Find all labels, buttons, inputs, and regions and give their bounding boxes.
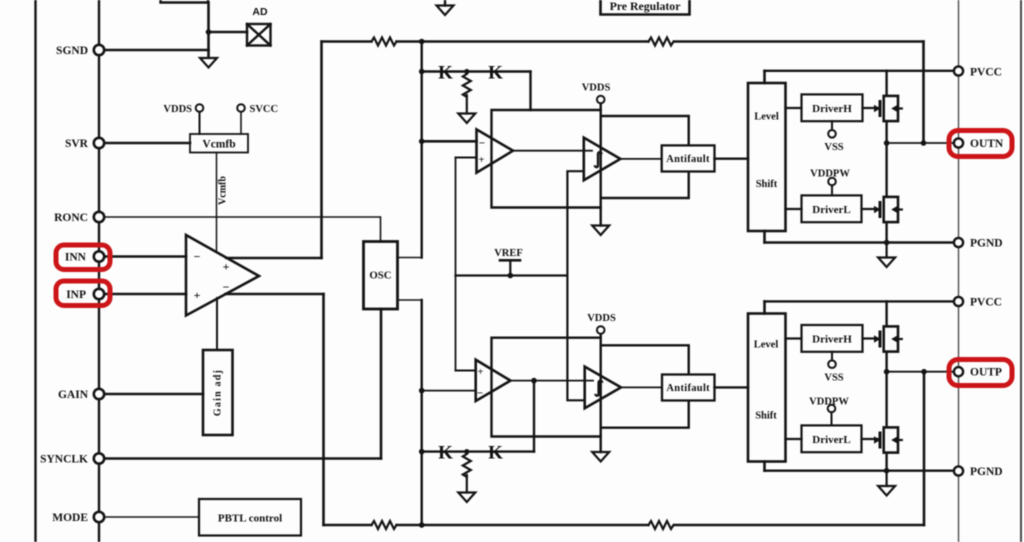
transistor Q3 high-side lower [874,326,902,351]
op-amp output plus wire [227,257,322,260]
integrator loop upper [601,116,689,198]
PGND rail lower [765,470,954,472]
svg-text:VREF: VREF [494,248,523,259]
DriverH box upper [802,94,863,121]
VREF junction dot [508,273,514,279]
Level Shift lower risers [763,301,766,470]
comparator loop lower [492,338,601,437]
K row lower wire [422,450,534,452]
svg-text:AD: AD [252,6,268,18]
K row upper junction dot [464,69,469,74]
ground under integrator upper [592,226,609,236]
red highlight INN [56,245,110,270]
OUTP junction dots [884,369,890,375]
VDDS rail lower vertical [600,334,602,452]
ground lower K [458,493,475,503]
Vcmfb output drop to op-amp [216,153,218,253]
VDDS rail upper vertical [600,103,602,225]
svg-text:VDDPW: VDDPW [809,397,849,408]
SVR wire [103,142,190,145]
svg-text:VSS: VSS [824,142,843,153]
SGND wire [103,49,209,52]
top feedback wire left segment [322,40,372,42]
svg-text:INP: INP [66,289,86,301]
DriverH upper gate wire [863,107,878,109]
pin SVR [94,138,104,148]
resistor to ground lower [463,454,471,477]
svg-text:Shift: Shift [755,411,777,422]
svg-text:Pre Regulator: Pre Regulator [610,0,681,13]
VDDPW stub upper [831,185,833,195]
top center ground [437,0,454,15]
svg-text:−: − [479,138,485,150]
svg-text:DriverH: DriverH [812,103,852,115]
K row upper wire [422,70,531,72]
INN wire [103,255,186,258]
node dot K row upper [419,69,425,75]
Q4 source stub [885,454,887,471]
bottom feedback riser to OUTP [923,372,926,525]
Level Shift box upper [748,83,786,231]
svg-text:+: + [223,260,230,274]
Gain adj box [203,350,233,435]
svg-text:INN: INN [65,252,87,264]
ground upper K [458,114,475,124]
svg-text:Vcmfb: Vcmfb [202,139,235,151]
comparator output upper [513,150,592,152]
AD crossed box [247,24,271,46]
Q1 drain stub [885,71,887,95]
ground stub below PGND upper [885,243,887,258]
VDDS circle upper [597,96,605,104]
integrator upper symbol [595,152,602,167]
comparator loop upper [492,110,601,208]
pin MODE [94,512,104,522]
pin INN [94,251,104,261]
pin PVCC upper [954,66,963,75]
right outer border [1020,0,1022,542]
wire below resistor upper [466,95,468,114]
node P summing vertical (lower) [421,300,423,525]
svg-text:PVCC: PVCC [970,297,1002,309]
svg-text:PGND: PGND [970,238,1003,250]
pin PVCC lower [954,297,963,306]
VDDPW stub lower [831,412,833,425]
svg-text:PBTL control: PBTL control [218,513,282,525]
Q3 source stub [885,353,887,372]
svg-text:−: − [477,388,483,400]
ground under integrator lower [592,452,609,462]
K row lower junction dot [464,449,469,454]
VDDPW circle lower [828,405,836,413]
SYNCLK wire [103,457,381,460]
integrator lower output [621,386,662,388]
DriverL box lower [802,425,862,452]
svg-text:Vcmfb: Vcmfb [218,176,229,205]
comparator output lower [511,380,594,382]
node dot comparator input lower [419,388,425,394]
red highlight OUTP [949,360,1012,386]
OSC output lower [398,299,422,301]
DriverL lower gate wire [862,438,878,440]
DriverL upper gate wire [862,208,878,210]
ground symbol upper channel [878,258,895,268]
ground symbol lower channel [878,486,895,496]
svg-text:OSC: OSC [369,270,391,282]
OUTN junction dots [884,140,890,146]
OSC bottom stub to SYNCLK wire [380,309,383,459]
MODE wire [103,516,199,518]
node dot bottom feedback [419,522,425,528]
DriverH lower gate wire [863,337,878,339]
SVCC pin circle [237,104,245,112]
pin bus vertical (left package boundary) [98,0,100,542]
svg-text:VSS: VSS [824,373,843,384]
PGND junction dot lower [884,468,890,474]
Q1 source stub [885,122,887,143]
svg-text:VDDS: VDDS [587,313,616,324]
svg-text:DriverL: DriverL [812,434,850,446]
DriverL lower input wire [786,438,802,440]
pin SYNCLK [94,453,104,463]
top feedback rail riser from op-amp [320,42,323,259]
comparator lower [476,360,511,401]
IC outline left border [34,0,36,542]
comparator input wire upper [422,140,477,143]
svg-text:K: K [488,443,503,464]
VSS stub lower [831,352,833,361]
integrator upper [584,138,621,181]
dot on comparator output lower [531,378,537,384]
wire from top box down to SGND node [207,3,210,58]
top cut-off box [161,0,209,3]
svg-text:Gain adj: Gain adj [213,369,224,416]
integrator lower symbol [595,381,602,396]
Antifault upper output [715,157,749,159]
PVCC rail lower [765,300,954,302]
top feedback drop to OUTN [922,42,925,144]
integrator upper output [620,158,661,160]
svg-text:Antifault: Antifault [666,383,710,394]
ground stub below PGND lower [885,471,887,486]
OSC box [364,242,398,310]
Antifault box lower [662,375,715,401]
svg-text:K: K [438,443,453,464]
svg-text:+: + [194,288,201,302]
svg-text:SVR: SVR [65,138,89,150]
svg-text:−: − [223,280,230,294]
svg-text:+: + [479,155,485,166]
resistor feedback bottom [649,521,674,529]
integrator lower [585,367,621,409]
Q4 drain stub [885,372,887,427]
svg-text:SGND: SGND [56,45,88,57]
pin INP [94,289,104,299]
node dot K row lower [419,449,425,455]
Q3 drain stub [885,301,887,325]
transistor Q4 low-side lower [874,427,902,452]
pin OUTN [954,138,963,147]
svg-text:OUTN: OUTN [970,138,1004,150]
VSS circle lower [828,360,836,368]
bottom feedback riser from op-amp [322,294,325,525]
VSS stub upper [831,121,833,130]
svg-text:VDDS: VDDS [582,83,611,94]
wire below resistor lower [466,475,468,493]
pin PGND upper [954,238,963,247]
svg-text:RONC: RONC [54,212,88,224]
comparator upper [477,129,514,172]
DriverL box upper [802,195,862,222]
VREF label tap [500,260,520,275]
resistor input bottom [372,521,397,529]
comparator ref wire upper [456,157,477,159]
svg-text:Level: Level [754,340,779,351]
OUTN node wire [887,142,954,144]
svg-text:K: K [438,63,453,84]
top feedback wire mid segment [397,40,649,42]
svg-text:DriverL: DriverL [812,204,850,216]
svg-text:Antifault: Antifault [666,154,710,165]
svg-text:+: + [478,367,484,378]
svg-text:GAIN: GAIN [58,389,89,401]
VDDS stub [199,112,201,134]
bottom feedback wire left segment [324,524,372,526]
resistor input top [372,38,397,46]
Antifault box upper [662,145,715,171]
PVCC rail upper [765,70,954,72]
svg-text:SYNCLK: SYNCLK [40,454,88,466]
ground below SGND node [200,58,217,68]
pin GAIN [94,389,104,399]
pin RONC [94,212,104,222]
svg-text:SVCC: SVCC [250,104,279,115]
comparator ref wire lower [456,370,476,372]
DriverH box lower [802,325,863,352]
node N summing vertical (upper) [421,42,423,258]
VREF wire [456,274,568,276]
Vcmfb box [190,134,248,153]
GAIN wire [103,393,203,396]
DriverL upper input wire [786,208,802,210]
pin PGND lower [954,466,963,475]
pin OUTP [954,367,963,376]
svg-text:−: − [194,250,201,264]
VSS circle upper [828,130,836,138]
bottom feedback wire right segment [675,524,925,526]
VDDS circle lower [597,326,605,334]
op-amp U1 input amplifier [186,235,259,316]
svg-text:DriverH: DriverH [812,334,852,346]
PBTL control box [199,499,301,536]
comparator input wire lower [422,390,476,392]
Gain adj riser to op-amp [216,298,218,350]
svg-text:VDDS: VDDS [163,104,192,115]
Level Shift box lower [748,314,786,462]
junction dot [206,29,212,35]
Q2 source stub [885,223,887,243]
red highlight INP [56,281,110,306]
svg-text:PVCC: PVCC [970,67,1002,79]
Antifault lower output [715,386,749,388]
DriverH upper input wire [786,107,802,109]
wire to AD box [209,31,248,34]
node dot top feedback [419,39,425,45]
PGND junction dot upper [884,240,890,246]
right package boundary line [958,0,960,542]
transistor Q2 low-side upper [874,197,902,222]
K row lower right riser [533,381,535,452]
Pre Regulator box (cut at top) [601,0,690,15]
resistor to ground upper [463,74,471,97]
RONC wire to OSC [103,217,381,242]
SVCC stub [240,112,242,134]
Level Shift upper risers [763,71,766,243]
VDDPW circle upper [828,178,836,186]
integrator second-input vertical [567,171,584,400]
red highlight OUTN [949,131,1012,157]
OSC output upper [398,257,422,259]
svg-text:Level: Level [754,112,779,123]
top feedback wire right segment [675,40,924,42]
transistor Q1 high-side upper [874,96,902,121]
PGND rail upper [765,241,954,243]
VREF distribution vertical [455,158,457,371]
bottom feedback wire mid segment [397,524,649,526]
DriverH lower input wire [786,337,802,339]
pin SGND [94,45,104,55]
svg-text:Shift: Shift [756,179,778,190]
VDDS pin circle (Vcmfb) [196,104,204,112]
INP wire [103,293,186,296]
resistor feedback top [649,38,674,46]
svg-text:MODE: MODE [52,512,88,524]
svg-text:VDDPW: VDDPW [810,169,850,180]
svg-text:K: K [488,63,503,84]
svg-text:PGND: PGND [970,466,1003,478]
OUTP node wire [887,371,954,373]
Q2 drain stub [885,143,887,196]
integrator loop lower [601,345,689,427]
op-amp output minus wire [226,293,324,296]
K row upper right drop [529,72,531,111]
svg-text:OUTP: OUTP [970,367,1002,379]
node dot comparator input upper [419,139,425,145]
